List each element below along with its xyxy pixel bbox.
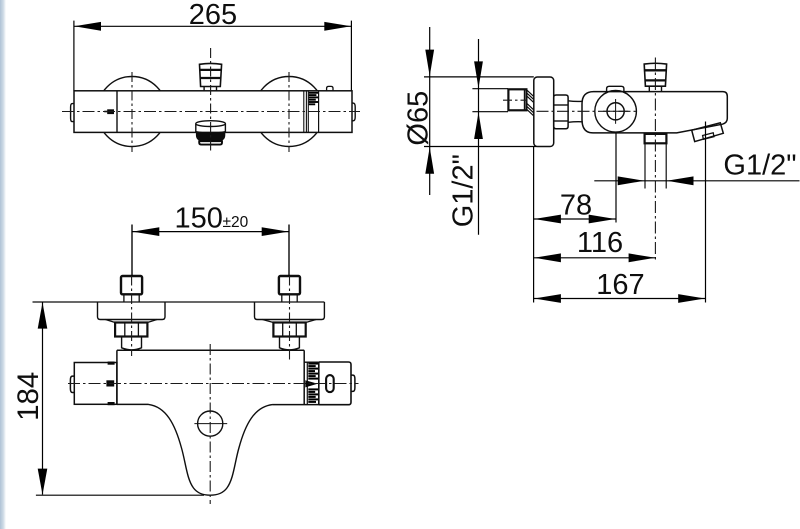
wall pipe: [508, 77, 727, 189]
left screen edge strip: [0, 0, 6, 529]
oval slot: [326, 375, 334, 392]
svg-text:184: 184: [12, 372, 45, 421]
svg-text:G1/2": G1/2": [723, 150, 796, 182]
body outline: [582, 92, 727, 133]
svg-text:150: 150: [175, 203, 223, 235]
svg-text:116: 116: [577, 227, 623, 259]
knurl seam double line: [303, 91, 305, 133]
centerline horizontal (front): [62, 111, 360, 113]
knurl edges: [318, 362, 320, 405]
connector: [568, 101, 583, 123]
dim G1/2 left: [472, 39, 508, 235]
bottom edge left segment: [117, 403, 149, 405]
spout bell: [149, 404, 273, 495]
temp pointer black: [305, 380, 317, 387]
dimension 184: [36, 302, 204, 495]
150 extension solid parts: [131, 225, 133, 277]
body bar: [74, 91, 352, 133]
extension lines for 78/116/167: [534, 122, 706, 303]
right union: [255, 276, 325, 350]
knurl band edges: [307, 91, 309, 133]
right stub: [351, 375, 355, 391]
centerlines side view: [503, 99, 527, 101]
dim 167: [534, 298, 706, 300]
dimension 150 +-20: [132, 225, 289, 277]
dim Ø65: [424, 27, 537, 195]
top knob (front): [199, 63, 222, 90]
centerline vertical left circle: [131, 72, 133, 152]
shower pipe collar: [645, 134, 667, 143]
svg-text:167: 167: [596, 269, 644, 301]
svg-text:78: 78: [560, 190, 592, 222]
cartridge circles: [595, 91, 637, 133]
top knob (side): [644, 63, 667, 91]
left stub: [70, 376, 74, 392]
centerline vertical middle: [210, 48, 212, 152]
end cap: [319, 362, 351, 405]
svg-text:±20: ±20: [223, 214, 249, 231]
right end stub: [352, 103, 355, 121]
flange: [534, 77, 554, 147]
thread hatch: [527, 90, 534, 116]
centerline vertical right circle: [288, 72, 290, 152]
dim G1/2 right: [594, 180, 799, 182]
dim 116: [534, 257, 656, 259]
bottom edge right segment: [273, 404, 320, 406]
long flange/extension line: [33, 301, 325, 303]
left end stub: [71, 104, 75, 122]
knurl ticks (front): [309, 93, 319, 105]
body (bottom view): [70, 350, 355, 495]
screw mark (front, black): [104, 109, 114, 114]
top button: [327, 86, 333, 91]
svg-text:G1/2": G1/2": [447, 154, 479, 227]
top button (side): [607, 86, 624, 91]
aerator: [692, 123, 724, 142]
body top line: [117, 349, 304, 351]
left union: [98, 276, 166, 350]
left cap seam: [116, 91, 118, 133]
knurl teeth (bottom view): [308, 364, 318, 402]
dimension 265: [74, 21, 352, 91]
right escutcheon circle: [254, 77, 324, 147]
bottom knob (front): [196, 121, 226, 145]
left escutcheon circle: [97, 77, 167, 147]
dim 78: [534, 218, 616, 220]
centerlines bottom view: [131, 276, 133, 357]
temp ring top/bottom edges: [304, 361, 319, 363]
spout hole circle: [198, 411, 223, 436]
left cap: [74, 363, 117, 405]
svg-text:Ø65: Ø65: [402, 91, 434, 146]
svg-text:265: 265: [189, 0, 237, 31]
hex nut: [554, 95, 568, 129]
seam black marks: [106, 362, 114, 406]
right seam double line: [303, 350, 305, 404]
